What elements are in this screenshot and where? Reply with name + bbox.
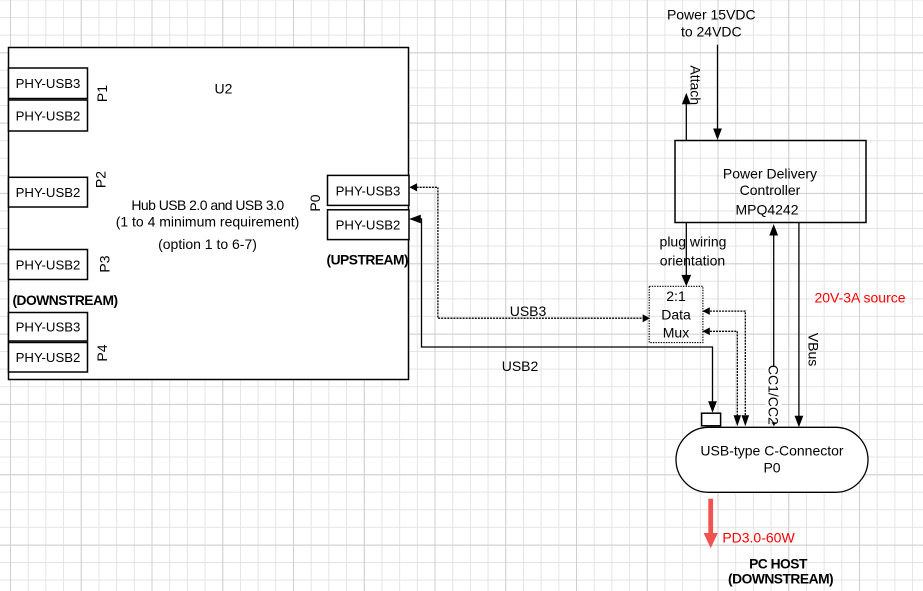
- wire CC1/CC2 double arrow: [766, 224, 782, 426]
- label plug wiring orientation: [660, 234, 727, 269]
- PHY-USB2 P4 box: [9, 343, 88, 373]
- PHY-USB3 upstream box: [328, 175, 410, 205]
- svg-text:P3: P3: [97, 255, 113, 272]
- svg-text:2:1: 2:1: [666, 288, 686, 304]
- wire power input arrow: [713, 45, 722, 140]
- svg-text:PHY-USB2: PHY-USB2: [336, 218, 401, 233]
- svg-text:PHY-USB2: PHY-USB2: [16, 258, 81, 273]
- svg-text:(option 1 to 6-7): (option 1 to 6-7): [158, 236, 257, 252]
- svg-text:P0: P0: [307, 194, 323, 211]
- wire PDC to data mux: [681, 223, 691, 287]
- svg-text:USB2: USB2: [502, 358, 539, 374]
- wire USB3 dashed: [409, 183, 650, 322]
- PHY-USB2 P2 box: [9, 177, 88, 207]
- svg-text:VBus: VBus: [805, 333, 821, 366]
- svg-text:MPQ4242: MPQ4242: [735, 202, 798, 218]
- svg-text:Power 15VDC: Power 15VDC: [667, 6, 756, 22]
- svg-text:Data: Data: [661, 306, 691, 322]
- wire attach arrow: [682, 93, 691, 140]
- svg-text:P1: P1: [94, 85, 110, 102]
- svg-text:U2: U2: [215, 81, 233, 97]
- PHY-USB2 P3 box: [9, 250, 88, 280]
- svg-text:Controller: Controller: [740, 182, 801, 198]
- wire VBus: [795, 223, 804, 428]
- wire mux to connector dashed 1: [702, 307, 749, 426]
- PHY-USB2 P1 box: [9, 100, 88, 131]
- svg-text:(UPSTREAM): (UPSTREAM): [326, 253, 408, 268]
- svg-text:plug wiring: plug wiring: [660, 234, 727, 250]
- label Power 15VDC to 24VDC: [667, 6, 756, 39]
- svg-text:Mux: Mux: [663, 324, 689, 340]
- svg-text:(DOWNSTREAM): (DOWNSTREAM): [728, 572, 833, 587]
- svg-text:PHY-USB3: PHY-USB3: [16, 76, 81, 91]
- svg-text:PHY-USB3: PHY-USB3: [336, 183, 401, 198]
- svg-text:to 24VDC: to 24VDC: [681, 23, 742, 39]
- svg-text:Power Delivery: Power Delivery: [723, 165, 817, 181]
- hub description text: [116, 197, 300, 252]
- svg-text:CC1/CC2: CC1/CC2: [766, 365, 782, 425]
- svg-text:PHY-USB2: PHY-USB2: [16, 350, 81, 365]
- svg-text:Attach: Attach: [687, 65, 703, 105]
- hub U2 outline: [9, 48, 409, 380]
- svg-text:PC HOST: PC HOST: [749, 557, 808, 572]
- svg-text:P0: P0: [763, 460, 780, 476]
- svg-text:20V-3A source: 20V-3A source: [814, 290, 905, 306]
- svg-text:PHY-USB3: PHY-USB3: [16, 320, 81, 335]
- wire USB2 solid: [409, 215, 717, 413]
- svg-text:P4: P4: [94, 344, 110, 361]
- wire mux to connector dashed 2: [702, 328, 741, 427]
- PHY-USB2 upstream box: [328, 210, 410, 240]
- power delivery controller MPQ4242 box: [675, 141, 866, 223]
- svg-text:(1 to 4 minimum requirement): (1 to 4 minimum requirement): [116, 214, 300, 230]
- PHY-USB3 P1 box: [9, 68, 88, 99]
- svg-text:USB-type C-Connector: USB-type C-Connector: [700, 443, 844, 459]
- 2:1 data mux box: [649, 286, 703, 342]
- svg-text:PD3.0-60W: PD3.0-60W: [722, 530, 795, 546]
- svg-text:orientation: orientation: [660, 252, 725, 268]
- red arrow PD3.0-60W: [704, 499, 718, 549]
- svg-text:Hub USB 2.0 and USB 3.0: Hub USB 2.0 and USB 3.0: [131, 197, 284, 213]
- PHY-USB3 P4 box: [9, 313, 88, 342]
- svg-text:USB3: USB3: [510, 303, 547, 319]
- USB type C connector P0: [676, 427, 868, 492]
- plug box: [702, 413, 721, 426]
- svg-text:PHY-USB2: PHY-USB2: [16, 185, 81, 200]
- svg-text:PHY-USB2: PHY-USB2: [16, 109, 81, 124]
- svg-text:P2: P2: [93, 171, 109, 188]
- svg-text:(DOWNSTREAM): (DOWNSTREAM): [12, 293, 117, 308]
